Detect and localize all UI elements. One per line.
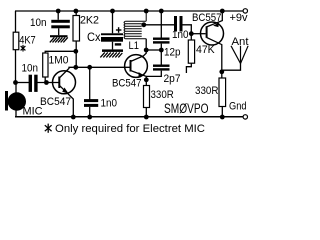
transistor Q2 base bar — [130, 60, 132, 72]
wire 47K bottom to ground rail — [186, 63, 191, 73]
wire C1 to ground symbol — [58, 28, 60, 35]
wire 1M0 top to 2K2 line — [45, 51, 76, 53]
junction dot collector node Q2 — [144, 48, 149, 53]
capacitor C5 2p7 plates — [153, 65, 170, 71]
wire top rail +9V — [15, 10, 243, 12]
wire bottom rail ground — [15, 116, 243, 118]
transistor Q2 BC547 circle — [125, 55, 148, 78]
svg-text:10n: 10n — [30, 17, 47, 29]
capacitor Cx electrolytic top stub — [112, 11, 114, 33]
wire left rail upper (corner to 4K7) — [15, 11, 17, 32]
wire 1M0 bottom to base node — [44, 77, 46, 83]
ground symbol under C1 — [50, 35, 68, 37]
wire antenna node — [222, 64, 241, 71]
junction dot Q2 emitter — [144, 77, 149, 82]
plus sign of Cx — [116, 27, 122, 33]
wire 2p7 bottom to emitter node — [146, 71, 161, 77]
svg-text:2p7: 2p7 — [164, 73, 181, 85]
transistor Q3 base bar — [206, 26, 208, 38]
junction dot antenna node — [219, 69, 224, 74]
capacitor C4 12p stub from rail — [160, 11, 162, 38]
junction dot L1 tap — [141, 22, 146, 27]
wire collector node horizontal — [146, 49, 161, 51]
svg-text:10n: 10n — [22, 63, 39, 75]
wire base node Q2 — [76, 66, 130, 68]
resistor R2 2K2 — [73, 16, 80, 42]
wire L1 bottom to collector node — [145, 39, 147, 50]
svg-text:BC557: BC557 — [192, 12, 222, 24]
wire 330R bottom to ground rail — [145, 108, 147, 118]
capacitor C2 10n mic coupling plates — [29, 75, 38, 92]
resistor R1 4K7 — [13, 32, 19, 50]
wire 12p node down to 2p7 — [160, 50, 162, 65]
capacitor C1 10n decoupling top stub — [57, 11, 59, 20]
svg-text:1M0: 1M0 — [49, 55, 69, 67]
wire 2K2 top stub — [75, 11, 77, 16]
asterisk of footnote — [45, 124, 52, 133]
inductor L1 — [124, 11, 146, 39]
wire 47K node to BC557 base — [191, 33, 205, 35]
junction dots top rail — [13, 9, 225, 120]
ground symbol under Cx — [102, 49, 123, 52]
capacitor C1 10n plates — [51, 20, 70, 29]
transistor Q1 base bar — [58, 77, 60, 89]
transistor Q2 emitter — [131, 71, 147, 86]
transistor Q2 emitter arrow — [139, 72, 145, 77]
capacitor Cx plates — [101, 33, 123, 41]
wire mic node to C2 — [16, 82, 30, 84]
svg-text:BC547: BC547 — [40, 96, 71, 108]
resistor R4 47K — [188, 40, 194, 63]
wire 47K top stub — [190, 34, 192, 40]
junction dot 1n0 bypass tap — [87, 65, 92, 70]
transistor Q3 emitter to rail — [207, 11, 223, 27]
terminal +9v — [243, 9, 247, 13]
svg-text:330R: 330R — [195, 85, 219, 97]
wire 1n0 to 47K node — [183, 25, 192, 34]
transistor Q1 emitter arrow — [62, 88, 68, 94]
terminal Gnd — [243, 115, 247, 119]
svg-text:MIC: MIC — [23, 106, 43, 118]
wire C7 bottom to ground rail — [89, 107, 91, 117]
antenna symbol — [231, 46, 248, 64]
svg-text:Cx: Cx — [87, 30, 101, 44]
transistor Q3 BC557 circle — [201, 22, 224, 45]
transistor Q2 collector — [131, 50, 147, 62]
junction dot mic node — [13, 80, 18, 85]
capacitor C4 12p plates — [153, 38, 170, 44]
transistor Q1 collector — [59, 67, 76, 78]
microphone MIC body — [8, 92, 26, 110]
junction dots bottom rail — [71, 115, 76, 120]
svg-text:BC547: BC547 — [112, 78, 142, 90]
junction dot 47K base node — [189, 31, 194, 36]
svg-text:4K7: 4K7 — [19, 35, 36, 47]
resistor R3 1M0 — [43, 53, 48, 77]
svg-text:2K2: 2K2 — [80, 15, 99, 27]
svg-text:12p: 12p — [164, 47, 181, 59]
resistor R6 330R antenna load — [219, 78, 226, 107]
svg-text:1n0: 1n0 — [172, 29, 189, 41]
capacitor C7 1n0 plates — [84, 99, 98, 107]
wire C2 to Q1 base — [38, 82, 59, 84]
junction dot Q1 base node — [44, 80, 49, 85]
svg-text:47K: 47K — [196, 44, 215, 56]
svg-text:330R: 330R — [151, 89, 174, 101]
wire L1 tap to 1n0 — [144, 24, 174, 26]
wire mic to node — [15, 83, 17, 93]
transistor Q1 emitter — [59, 85, 73, 117]
capacitor C7 1n0 base bypass stub — [89, 67, 91, 99]
asterisk near 4K7 — [21, 45, 26, 52]
wire left rail lower (4K7 to mic node) — [15, 50, 17, 83]
wire Cx to ground symbol — [112, 42, 114, 50]
svg-text:+9v: +9v — [230, 12, 249, 24]
transistor Q3 collector — [207, 37, 222, 78]
wire 12p bottom to collector node — [160, 44, 162, 50]
junction dot 12p node — [159, 48, 164, 53]
microphone front plate — [5, 91, 8, 111]
svg-text:SMØVPO: SMØVPO — [164, 101, 209, 116]
junction dot Q1 collector node — [73, 65, 78, 70]
svg-text:L1: L1 — [129, 40, 140, 52]
minus sign of Cx — [115, 43, 121, 45]
svg-text:Ant: Ant — [232, 36, 249, 48]
junction dot 1M0/2K2 — [73, 49, 78, 54]
wire 2K2 bottom to collector node — [75, 41, 77, 67]
svg-text:Only required for Electret MIC: Only required for Electret MIC — [55, 123, 205, 135]
resistor R5 330R emitter — [144, 86, 150, 108]
wire 330R bottom to ground rail — [221, 107, 223, 118]
transistor Q1 BC547 circle — [53, 71, 76, 94]
wire mic bottom to ground rail — [15, 110, 17, 117]
svg-text:1n0: 1n0 — [101, 98, 118, 110]
capacitor C6 1n0 coupling plates — [174, 16, 183, 32]
svg-text:Gnd: Gnd — [229, 101, 247, 113]
transistor Q3 emitter arrow PNP — [213, 23, 219, 28]
